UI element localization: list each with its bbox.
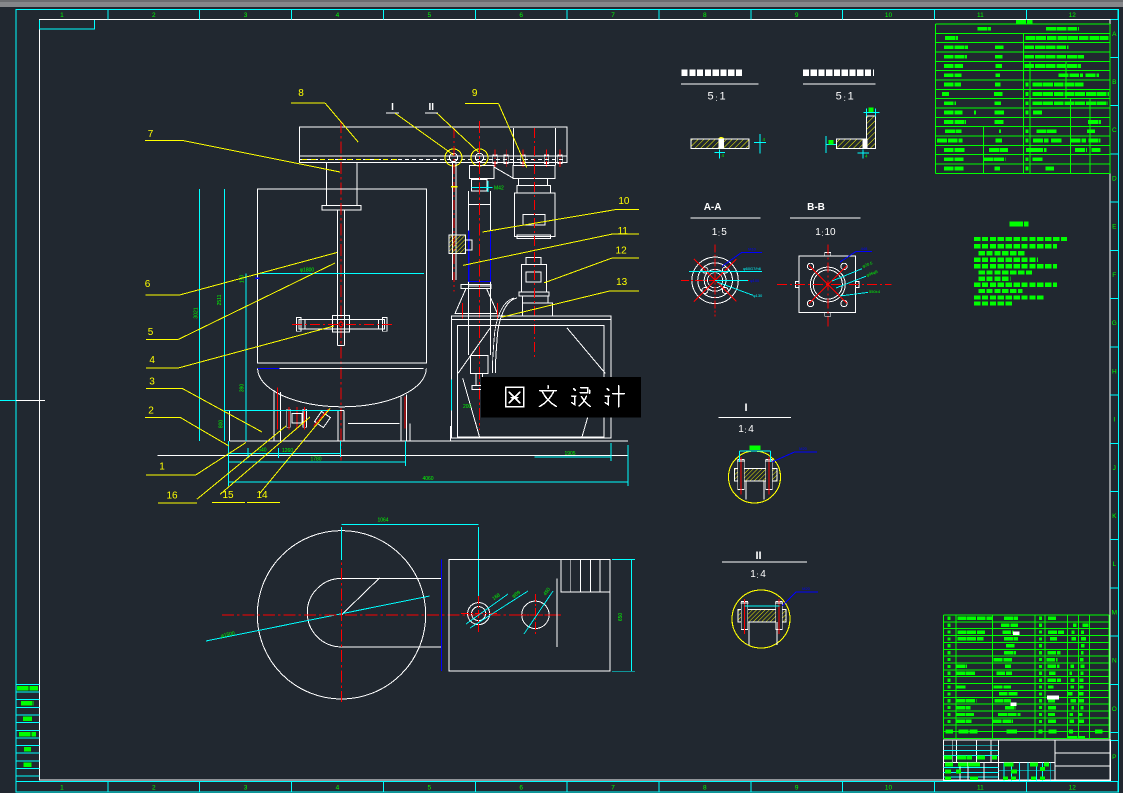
left fold mark (16, 399, 45, 401)
svg-text:11: 11 (977, 784, 984, 791)
beam bottom strip (299, 156, 567, 163)
svg-text:7: 7 (611, 784, 615, 791)
drain valve body (315, 412, 331, 428)
tank seam lines (258, 362, 427, 364)
hatched nut block (449, 235, 466, 253)
guide rod lower bracket (455, 289, 498, 314)
upper motor cap (517, 235, 550, 239)
A-A flange circles (692, 257, 738, 303)
top gray bar (0, 0, 1123, 7)
weld detail A-B hatched bar (691, 139, 749, 148)
svg-text:5: 5 (148, 327, 154, 338)
top view dim 1064 (342, 523, 479, 525)
svg-text:7: 7 (148, 129, 154, 140)
svg-text:M: M (1112, 609, 1117, 616)
guide rod red centerline (453, 128, 455, 292)
svg-text:1: 1 (848, 91, 854, 103)
svg-text::: : (756, 571, 758, 580)
technical requirements title (1010, 222, 1029, 227)
svg-text:1260: 1260 (282, 448, 293, 454)
top ruler band line (1110, 19, 1119, 21)
svg-text:9: 9 (472, 88, 478, 99)
title block small green text (944, 756, 952, 760)
B-B underline (790, 217, 861, 219)
svg-text::: : (821, 229, 823, 238)
weld detail A-B underline (681, 83, 759, 85)
main beam (299, 127, 567, 156)
top view trolley rect (449, 560, 610, 672)
left vertical dim 1 (198, 189, 200, 441)
svg-text:3021: 3021 (193, 307, 199, 318)
svg-text:N: N (1112, 658, 1117, 665)
weld detail A-B right dim (759, 134, 761, 154)
svg-text::: : (844, 94, 846, 103)
left vertical dim 3 (245, 274, 247, 441)
top view obround (342, 577, 442, 579)
svg-text:5: 5 (427, 12, 431, 19)
strip dashed line (300, 158, 566, 160)
svg-text:5: 5 (427, 784, 431, 791)
top view radius line (342, 578, 380, 615)
legs red centerlines (276, 388, 278, 430)
svg-text:B: B (1112, 79, 1116, 86)
A-A blue leader (722, 253, 762, 267)
BOM totals row (945, 730, 953, 734)
screw top bracket (469, 165, 494, 178)
impeller center dot (339, 322, 343, 326)
frame inner rect (458, 326, 604, 437)
svg-text:φ1800: φ1800 (300, 268, 315, 274)
top view inner rect right edge (556, 578, 558, 647)
svg-text:800: 800 (219, 420, 225, 429)
svg-text:12: 12 (1069, 12, 1077, 19)
svg-text:1905: 1905 (564, 451, 575, 457)
upper motor flange (517, 186, 550, 193)
lower motor window (526, 272, 541, 282)
plinth (230, 409, 345, 411)
svg-text:I: I (391, 102, 394, 113)
svg-text:1780: 1780 (310, 456, 321, 462)
detail I hatched band (735, 469, 778, 482)
tank wall blue tick (255, 277, 260, 279)
nut box lower (471, 356, 488, 374)
lower motor flange (519, 292, 549, 296)
svg-text:2: 2 (152, 784, 156, 791)
svg-text:φ60G7/h6: φ60G7/h6 (743, 266, 762, 271)
lower motor plate (523, 303, 553, 316)
dim 1780 line (228, 461, 405, 463)
top view hole 2 (522, 601, 549, 628)
top view hole 2 centerlines (517, 614, 554, 616)
A-A underline (691, 217, 761, 219)
svg-text:O: O (1112, 706, 1117, 713)
svg-text:3: 3 (244, 12, 248, 19)
svg-text:6: 6 (519, 12, 523, 19)
svg-text:1: 1 (815, 227, 821, 238)
detail I top dim (740, 450, 771, 452)
svg-text:14: 14 (256, 490, 268, 501)
shaft stub below hub (337, 332, 339, 346)
dim extension verticals (227, 441, 229, 486)
svg-text:8: 8 (703, 12, 707, 19)
technical requirements text (974, 237, 1067, 241)
svg-text:4: 4 (760, 569, 766, 580)
weld detail A-B weld spot (719, 138, 724, 149)
impeller hub (333, 316, 350, 332)
svg-text:11: 11 (977, 12, 984, 19)
table header blob (1016, 20, 1032, 24)
motor column through beam (512, 128, 514, 165)
tank dished bottom (258, 368, 427, 407)
left vertical dim 2 (223, 189, 225, 441)
svg-text:10: 10 (885, 12, 893, 19)
svg-text::: : (718, 229, 720, 238)
svg-text:4: 4 (149, 355, 155, 366)
svg-text:E: E (1112, 224, 1117, 231)
svg-text:10: 10 (824, 227, 836, 238)
impeller blades (299, 320, 384, 329)
svg-text:11: 11 (618, 226, 629, 237)
B-B bolt holes (807, 263, 813, 269)
svg-text:2: 2 (152, 12, 156, 19)
strip bolts (493, 155, 497, 164)
base ground line (230, 440, 629, 442)
frame outer rect (451, 320, 611, 439)
frame braces (458, 328, 490, 374)
svg-text:M20: M20 (802, 586, 811, 591)
dim ext horizontal y409 (224, 409, 340, 411)
lower motor body (522, 264, 547, 292)
svg-text:4: 4 (336, 12, 340, 19)
svg-text:I: I (1113, 417, 1115, 424)
top view cyan diagonal dim (206, 596, 430, 641)
top view hole 1 centerlines (461, 613, 497, 615)
watermark background (481, 377, 641, 417)
svg-text:1: 1 (159, 462, 165, 473)
screw neck (472, 180, 487, 191)
svg-text:12: 12 (616, 246, 628, 257)
svg-text:13: 13 (616, 277, 628, 288)
svg-text:650: 650 (618, 613, 624, 622)
svg-text:7: 7 (611, 12, 615, 19)
svg-text:6: 6 (145, 279, 151, 290)
svg-text:390: 390 (240, 384, 246, 393)
svg-text:9: 9 (795, 12, 799, 19)
weld detail pipe-head left dim (826, 143, 836, 145)
detail I blue leader (772, 452, 817, 462)
top view hole 1 (468, 603, 490, 625)
svg-text:M20: M20 (799, 446, 808, 451)
bracket bolts red (461, 303, 463, 319)
top-right parts list table (936, 23, 1110, 25)
guide rod yellow tick (451, 186, 458, 188)
svg-text::: : (715, 94, 717, 103)
weld detail pipe-head vertical bar (867, 116, 876, 148)
housing flange (322, 206, 361, 211)
detail II hatched band (738, 610, 786, 623)
BOM table bottom-right (944, 614, 1110, 616)
agitator shaft (337, 210, 339, 332)
drain valve bolts red (288, 407, 290, 429)
svg-text:C: C (1112, 127, 1117, 134)
upper motor gearbox (513, 165, 555, 178)
svg-text:12: 12 (1069, 784, 1077, 791)
frame top plate (451, 316, 611, 320)
dim 4060 line (228, 481, 628, 483)
svg-text:D: D (1112, 175, 1117, 182)
svg-text:10: 10 (885, 784, 893, 791)
bearing housing (327, 163, 358, 206)
svg-text:1: 1 (60, 12, 64, 19)
svg-text:J: J (1113, 465, 1116, 472)
weld detail pipe-head title (803, 70, 874, 77)
svg-text:15: 15 (222, 490, 234, 501)
svg-text:L: L (1112, 561, 1116, 568)
svg-text:4060: 4060 (422, 476, 433, 482)
column bottom flange (468, 285, 491, 287)
svg-text:1064: 1064 (377, 518, 388, 524)
svg-text:G: G (1112, 320, 1117, 327)
B-B red centerlines (777, 284, 892, 286)
lower motor red centerline (534, 252, 536, 357)
dim phi1800 (258, 273, 425, 275)
detail II lower legs (748, 622, 750, 645)
svg-text:3: 3 (149, 377, 155, 388)
svg-text:M42: M42 (494, 186, 504, 192)
detail II bolts (741, 602, 747, 630)
top view hole leaders (466, 594, 508, 624)
svg-text:φ100: φ100 (750, 278, 760, 283)
svg-text::: : (744, 426, 746, 435)
svg-text:448: 448 (861, 246, 868, 251)
drain valve flanges (287, 409, 290, 427)
svg-text:8: 8 (298, 88, 304, 99)
svg-text:A: A (1112, 31, 1117, 38)
B-B blue leader (840, 252, 872, 263)
svg-text:1: 1 (738, 424, 744, 435)
screw lower rod (475, 373, 477, 385)
screw column (468, 191, 470, 355)
detail I bolts (738, 460, 744, 490)
M42 dim (472, 187, 493, 189)
svg-text:F: F (1112, 272, 1116, 279)
svg-text:φ130: φ130 (753, 293, 763, 298)
impeller red centerline (292, 323, 393, 325)
weld detail pipe-head underline (803, 83, 876, 85)
shaft red centerline (340, 121, 342, 460)
BOM white cells (1013, 631, 1020, 635)
right band ticks and letters (1110, 57, 1119, 59)
A-A cyan leader lines (689, 271, 762, 273)
svg-text:H: H (1112, 368, 1117, 375)
detail II blue leader (782, 592, 818, 606)
detail I lower legs (745, 481, 747, 500)
weld marker circle I (445, 149, 462, 166)
svg-text:B-B: B-B (807, 202, 825, 213)
svg-text:M10: M10 (748, 247, 757, 252)
svg-text:A-A: A-A (704, 202, 722, 213)
svg-text:5: 5 (707, 91, 713, 103)
title block right band step (1110, 740, 1118, 742)
B-B circles (810, 267, 845, 302)
svg-text:16: 16 (166, 491, 178, 502)
bottom ruler band top line (16, 781, 1119, 783)
motor cable (495, 298, 517, 373)
A-A bolt holes (722, 267, 728, 273)
svg-text:P: P (1112, 754, 1116, 761)
svg-text:10: 10 (618, 196, 630, 207)
top view hatch ladder (561, 560, 610, 593)
upper motor window (523, 215, 545, 225)
svg-text:II: II (429, 102, 435, 113)
svg-text:5: 5 (836, 91, 842, 103)
svg-text:2511: 2511 (217, 294, 223, 305)
svg-text:1: 1 (719, 91, 725, 103)
weld marker circle II (471, 149, 488, 166)
detail II inner dim (745, 605, 780, 607)
detail II circle (732, 590, 790, 648)
screw column blue sleeve (468, 231, 470, 282)
drain valve small parts (292, 414, 302, 424)
svg-text:6: 6 (519, 784, 523, 791)
weld detail pipe-head top dim (864, 112, 880, 114)
weld detail pipe-head horizontal bar (837, 139, 868, 148)
svg-text:200: 200 (463, 404, 472, 410)
svg-text:3: 3 (244, 784, 248, 791)
weld detail A-B title (682, 70, 743, 77)
frame left dim (450, 379, 452, 410)
guide rod (451, 163, 453, 280)
svg-text:4: 4 (336, 784, 340, 791)
detail I circle (729, 451, 781, 503)
weld detail A-B bottom dim (719, 150, 721, 159)
drain valve red diagonal (314, 409, 329, 426)
top-left corner step (39, 20, 94, 29)
B-B edge tabs (795, 281, 799, 287)
lower motor mount (523, 296, 548, 303)
svg-text:5: 5 (721, 227, 727, 238)
svg-text:1: 1 (60, 784, 64, 791)
svg-text:8: 8 (703, 784, 707, 791)
tank seam blue segment (258, 367, 280, 369)
upper motor red centerline (534, 128, 536, 250)
tank legs (273, 390, 275, 441)
B-B square flange (799, 256, 856, 313)
top view red centerlines (222, 614, 561, 616)
weld detail pipe-head weld spot (863, 139, 868, 148)
right band inner line (1109, 20, 1111, 781)
A-A red centerlines (681, 279, 749, 281)
svg-text:1: 1 (712, 227, 718, 238)
B-B cyan leaders (832, 269, 862, 281)
top view tank circle (257, 531, 425, 699)
svg-text:550±4: 550±4 (869, 289, 881, 294)
weld detail pipe-head bottom dim (862, 150, 864, 159)
watermark characters (506, 386, 625, 408)
title block (943, 740, 1110, 781)
svg-text:4: 4 (748, 424, 754, 435)
upper motor neck (519, 178, 548, 185)
svg-text:2: 2 (148, 406, 154, 417)
screw red centerline (479, 121, 481, 430)
svg-text:9: 9 (795, 784, 799, 791)
svg-text:1: 1 (750, 569, 756, 580)
svg-text:K: K (1112, 513, 1117, 520)
upper motor body (514, 193, 555, 237)
svg-text:I: I (744, 402, 747, 414)
dim 540 1260 line (228, 452, 340, 454)
top view right dim 650 (630, 560, 632, 672)
top view blue left edge (440, 560, 442, 672)
detail I underline (719, 417, 792, 419)
revision strip bottom-left (16, 683, 39, 685)
tank shell (258, 189, 427, 363)
ruler ticks and numbers (15, 9, 17, 19)
svg-text:II: II (755, 550, 761, 562)
dim 1905 (535, 456, 611, 458)
detail II underline (722, 561, 807, 563)
lower motor cap (526, 258, 541, 265)
